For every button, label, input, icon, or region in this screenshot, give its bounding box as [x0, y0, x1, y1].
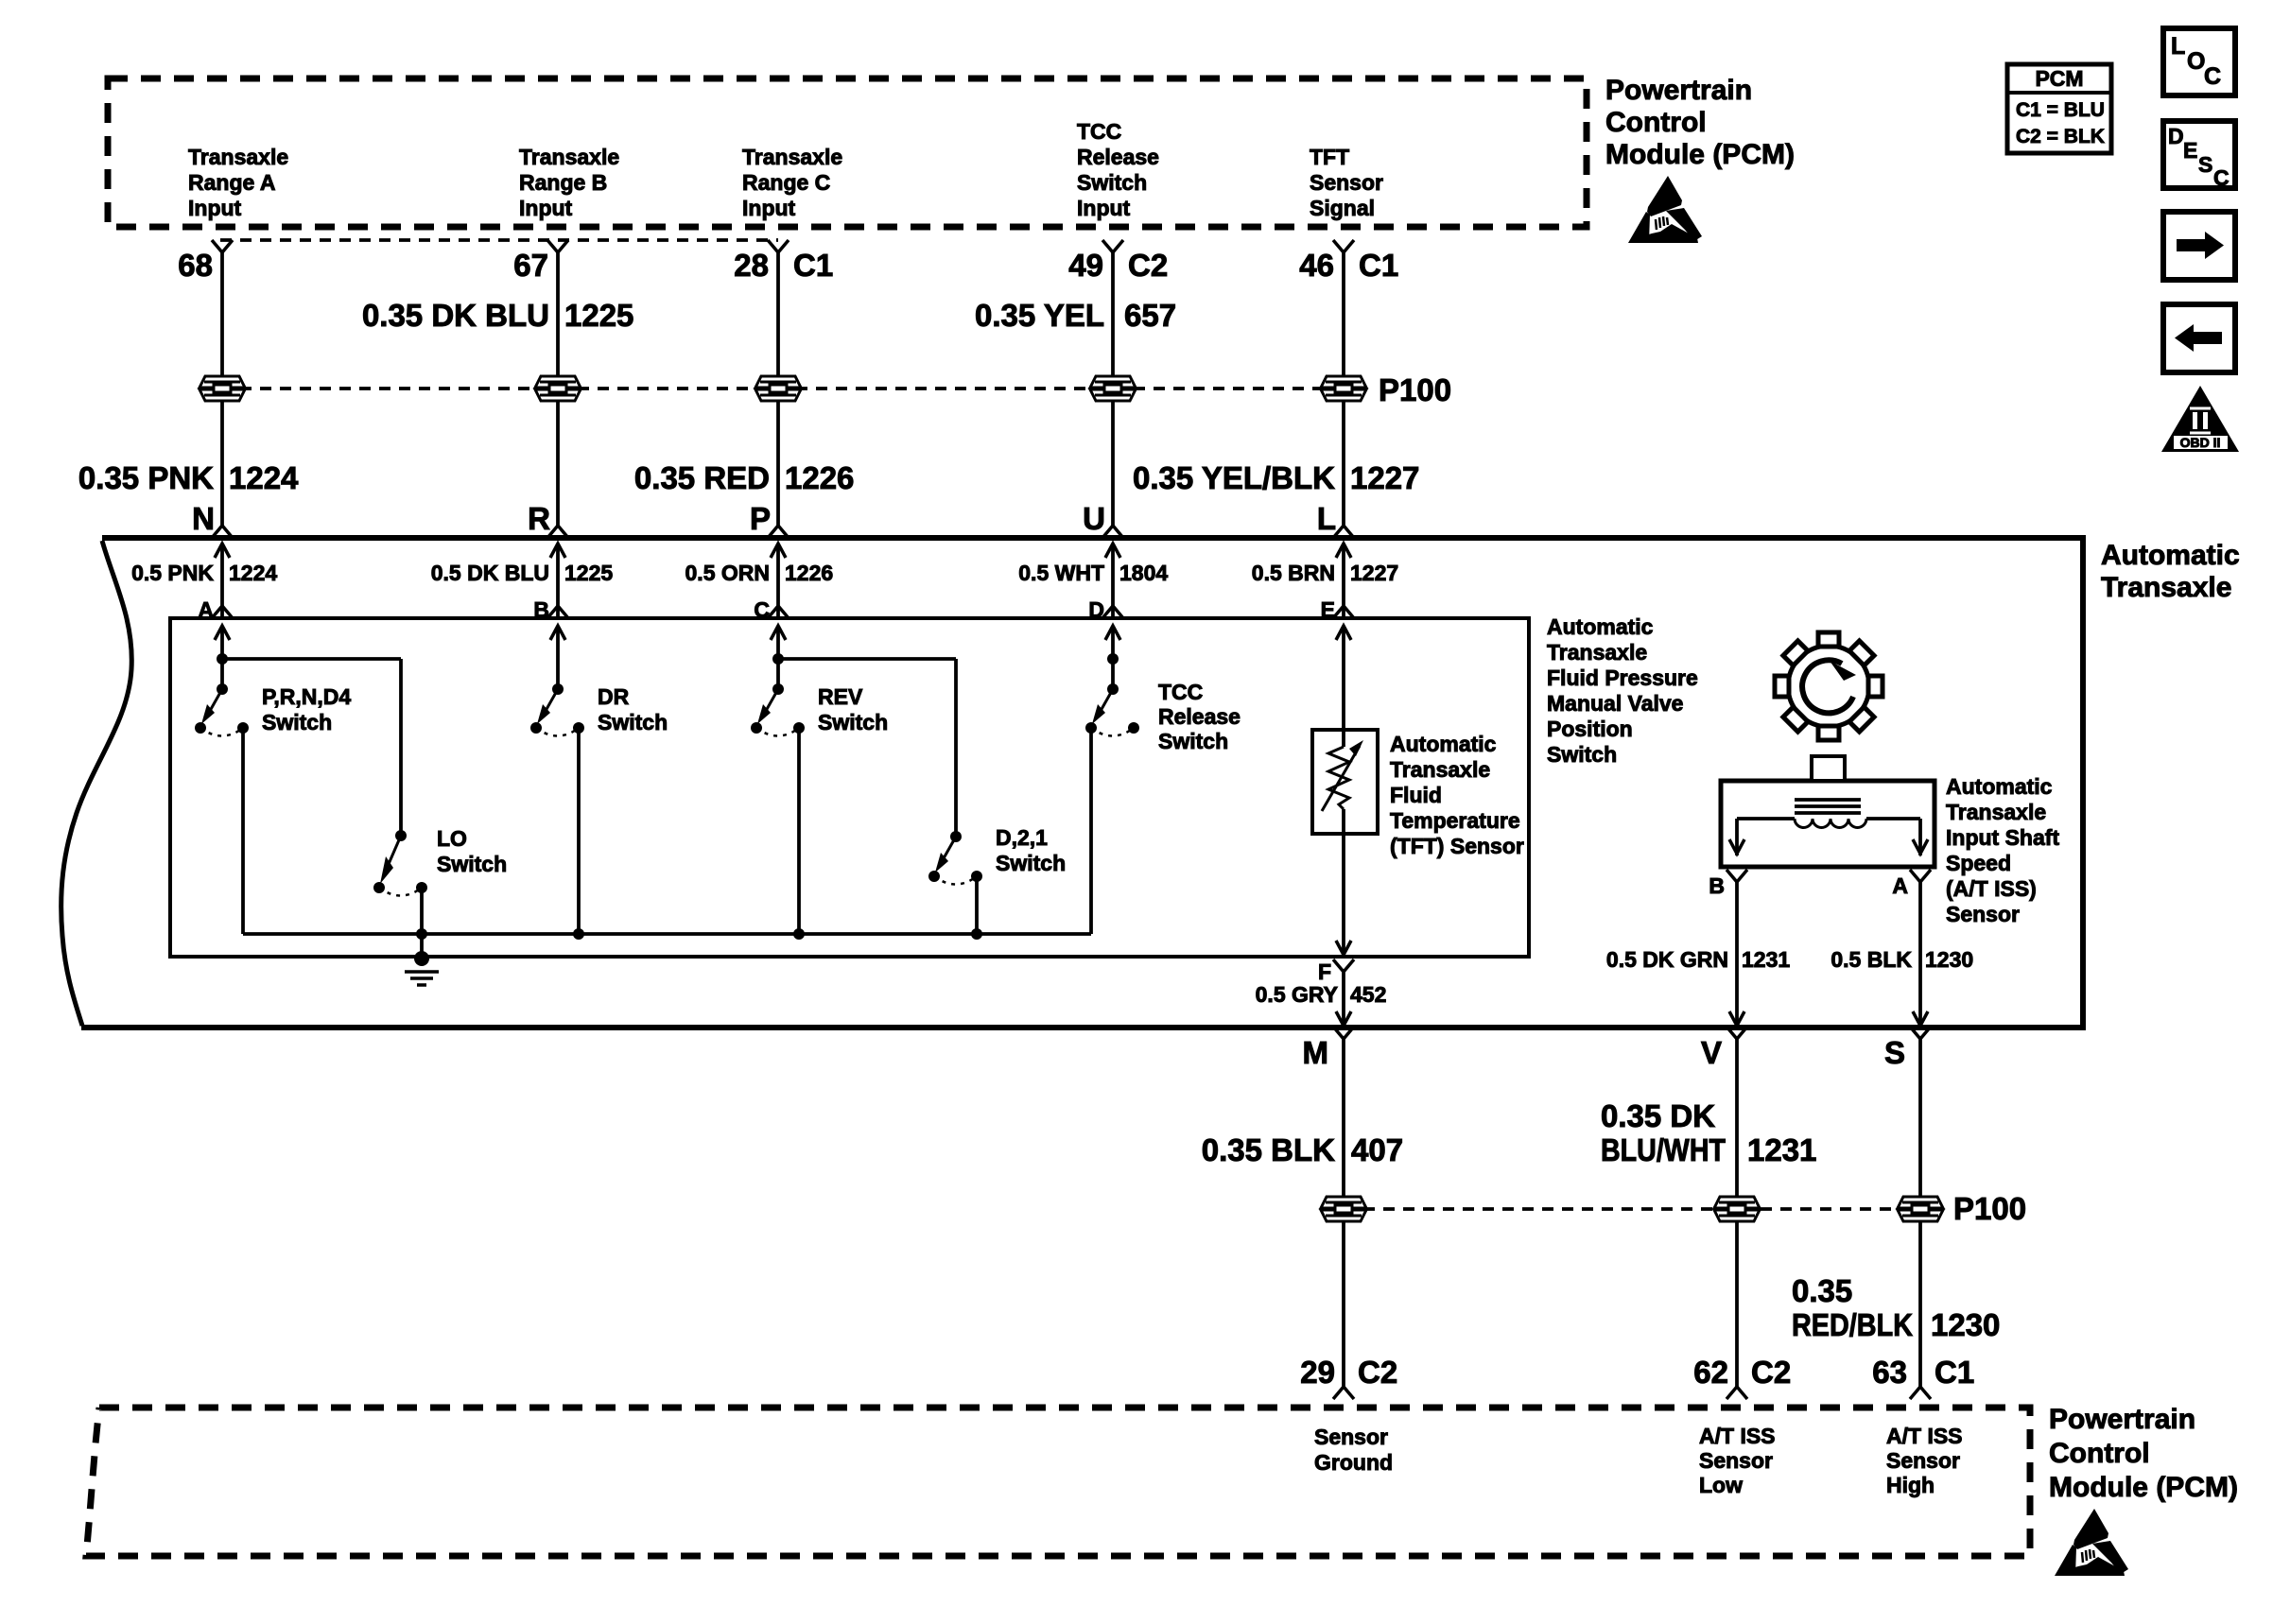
- svg-text:D,2,1: D,2,1: [996, 825, 1048, 850]
- svg-text:TCC: TCC: [1077, 119, 1121, 144]
- svg-text:Automatic: Automatic: [1946, 774, 2053, 799]
- svg-text:Range A: Range A: [188, 170, 275, 195]
- svg-text:1226: 1226: [785, 561, 833, 585]
- svg-text:407: 407: [1351, 1132, 1403, 1167]
- svg-text:Transaxle: Transaxle: [519, 145, 619, 169]
- svg-text:0.5 DK GRN: 0.5 DK GRN: [1606, 947, 1728, 972]
- svg-text:Low: Low: [1699, 1473, 1743, 1497]
- svg-text:Module (PCM): Module (PCM): [2049, 1472, 2238, 1503]
- svg-text:0.5 DK BLU: 0.5 DK BLU: [431, 561, 549, 585]
- svg-text:C2: C2: [1358, 1355, 1397, 1390]
- svg-text:0.35 YEL/BLK: 0.35 YEL/BLK: [1133, 460, 1335, 495]
- svg-text:Automatic: Automatic: [1547, 614, 1654, 639]
- svg-text:0.35 YEL: 0.35 YEL: [975, 298, 1104, 333]
- svg-text:0.5 BLK: 0.5 BLK: [1831, 947, 1912, 972]
- svg-text:Automatic: Automatic: [1390, 732, 1497, 756]
- svg-text:1230: 1230: [1925, 947, 1973, 972]
- svg-text:DR: DR: [598, 684, 630, 709]
- svg-text:1231: 1231: [1742, 947, 1790, 972]
- svg-text:Powertrain: Powertrain: [1605, 75, 1752, 106]
- svg-text:Automatic: Automatic: [2101, 540, 2240, 571]
- svg-text:Sensor: Sensor: [1946, 902, 2020, 926]
- svg-text:Switch: Switch: [437, 852, 507, 876]
- svg-text:0.35 PNK: 0.35 PNK: [78, 460, 214, 495]
- svg-text:A/T ISS: A/T ISS: [1699, 1424, 1776, 1448]
- svg-text:29: 29: [1300, 1355, 1335, 1390]
- svg-text:C1: C1: [793, 248, 833, 283]
- svg-text:0.35 BLK: 0.35 BLK: [1202, 1132, 1335, 1167]
- svg-text:1224: 1224: [229, 460, 299, 495]
- svg-text:0.35 DK BLU: 0.35 DK BLU: [362, 298, 549, 333]
- svg-text:Sensor: Sensor: [1699, 1448, 1773, 1473]
- svg-text:Input: Input: [742, 196, 796, 220]
- svg-text:D: D: [2168, 124, 2184, 148]
- svg-text:1804: 1804: [1119, 561, 1168, 585]
- svg-text:Input Shaft: Input Shaft: [1946, 825, 2059, 850]
- svg-text:1224: 1224: [229, 561, 277, 585]
- svg-text:0.5 PNK: 0.5 PNK: [131, 561, 214, 585]
- svg-text:Transaxle: Transaxle: [2101, 572, 2231, 603]
- svg-text:P100: P100: [1953, 1191, 2026, 1226]
- svg-text:Switch: Switch: [1158, 729, 1228, 753]
- svg-text:L: L: [2171, 33, 2185, 60]
- svg-text:Control: Control: [2049, 1438, 2150, 1469]
- svg-text:Manual Valve: Manual Valve: [1547, 691, 1683, 716]
- svg-text:Switch: Switch: [1547, 742, 1617, 767]
- svg-text:Signal: Signal: [1310, 196, 1375, 220]
- svg-text:1227: 1227: [1350, 460, 1419, 495]
- svg-text:Range C: Range C: [742, 170, 830, 195]
- svg-text:U: U: [1083, 501, 1105, 536]
- svg-text:1225: 1225: [564, 298, 633, 333]
- svg-text:RED/BLK: RED/BLK: [1792, 1307, 1913, 1342]
- svg-text:Speed: Speed: [1946, 851, 2011, 875]
- svg-text:TCC: TCC: [1158, 680, 1203, 704]
- svg-text:Transaxle: Transaxle: [1946, 800, 2046, 824]
- svg-text:452: 452: [1350, 982, 1386, 1007]
- svg-text:M: M: [1303, 1035, 1329, 1070]
- svg-text:F: F: [1318, 959, 1331, 984]
- svg-text:B: B: [1709, 873, 1725, 898]
- svg-text:(TFT) Sensor: (TFT) Sensor: [1390, 834, 1524, 858]
- svg-text:TFT: TFT: [1310, 145, 1349, 169]
- svg-text:Sensor: Sensor: [1886, 1448, 1960, 1473]
- svg-text:C1: C1: [1359, 248, 1398, 283]
- svg-text:0.5 GRY: 0.5 GRY: [1256, 982, 1338, 1007]
- svg-text:Transaxle: Transaxle: [188, 145, 288, 169]
- svg-text:67: 67: [513, 248, 548, 283]
- svg-text:Transaxle: Transaxle: [742, 145, 842, 169]
- svg-text:0.5 WHT: 0.5 WHT: [1018, 561, 1104, 585]
- svg-text:Fluid Pressure: Fluid Pressure: [1547, 665, 1698, 690]
- svg-text:PCM: PCM: [2035, 66, 2083, 91]
- svg-text:P100: P100: [1379, 372, 1451, 407]
- svg-text:P,R,N,D4: P,R,N,D4: [262, 684, 351, 709]
- svg-text:E: E: [2183, 138, 2197, 163]
- svg-text:Switch: Switch: [262, 710, 332, 734]
- svg-text:Input: Input: [519, 196, 573, 220]
- svg-text:Range B: Range B: [519, 170, 607, 195]
- svg-text:46: 46: [1299, 248, 1334, 283]
- svg-text:Control: Control: [1605, 107, 1707, 138]
- svg-text:Position: Position: [1547, 717, 1633, 741]
- svg-text:Transaxle: Transaxle: [1547, 640, 1647, 665]
- svg-text:A/T ISS: A/T ISS: [1886, 1424, 1963, 1448]
- svg-text:1231: 1231: [1747, 1132, 1816, 1167]
- svg-text:O: O: [2187, 48, 2205, 75]
- svg-text:REV: REV: [818, 684, 863, 709]
- svg-text:High: High: [1886, 1473, 1935, 1497]
- svg-text:0.35: 0.35: [1792, 1273, 1852, 1308]
- svg-text:0.5 BRN: 0.5 BRN: [1252, 561, 1335, 585]
- svg-text:C: C: [2213, 165, 2230, 190]
- svg-text:Powertrain: Powertrain: [2049, 1404, 2195, 1435]
- svg-text:C: C: [2204, 63, 2221, 90]
- svg-text:C2 = BLK: C2 = BLK: [2016, 126, 2105, 147]
- svg-text:(A/T ISS): (A/T ISS): [1946, 876, 2037, 901]
- svg-text:63: 63: [1872, 1355, 1907, 1390]
- svg-text:Input: Input: [188, 196, 242, 220]
- svg-text:1226: 1226: [785, 460, 854, 495]
- svg-text:BLU/WHT: BLU/WHT: [1601, 1132, 1726, 1167]
- svg-text:C1 = BLU: C1 = BLU: [2016, 99, 2105, 121]
- svg-text:Temperature: Temperature: [1390, 808, 1520, 833]
- svg-text:C2: C2: [1751, 1355, 1791, 1390]
- svg-text:1225: 1225: [564, 561, 613, 585]
- svg-text:Switch: Switch: [598, 710, 668, 734]
- svg-text:N: N: [192, 501, 215, 536]
- svg-text:Input: Input: [1077, 196, 1131, 220]
- svg-text:28: 28: [734, 248, 769, 283]
- svg-text:0.35 DK: 0.35 DK: [1601, 1098, 1715, 1133]
- svg-text:Transaxle: Transaxle: [1390, 757, 1490, 782]
- svg-text:Module (PCM): Module (PCM): [1605, 139, 1795, 170]
- svg-text:Switch: Switch: [818, 710, 888, 734]
- svg-text:1230: 1230: [1931, 1307, 2000, 1342]
- svg-text:P: P: [750, 501, 771, 536]
- svg-text:1227: 1227: [1350, 561, 1398, 585]
- svg-text:Switch: Switch: [996, 851, 1066, 875]
- svg-text:OBD II: OBD II: [2180, 435, 2221, 450]
- svg-text:S: S: [1884, 1035, 1905, 1070]
- svg-text:A: A: [1892, 873, 1908, 898]
- svg-text:C1: C1: [1935, 1355, 1974, 1390]
- svg-text:657: 657: [1124, 298, 1176, 333]
- svg-text:49: 49: [1068, 248, 1103, 283]
- svg-text:Fluid: Fluid: [1390, 783, 1442, 807]
- svg-text:Release: Release: [1158, 704, 1241, 729]
- svg-text:LO: LO: [437, 826, 467, 851]
- svg-text:0.35 RED: 0.35 RED: [634, 460, 770, 495]
- svg-text:V: V: [1701, 1035, 1722, 1070]
- svg-text:S: S: [2198, 152, 2212, 177]
- svg-text:Release: Release: [1077, 145, 1159, 169]
- svg-text:0.5 ORN: 0.5 ORN: [685, 561, 770, 585]
- svg-text:R: R: [528, 501, 550, 536]
- svg-text:Ground: Ground: [1314, 1450, 1393, 1475]
- svg-text:Sensor: Sensor: [1314, 1425, 1388, 1449]
- svg-text:68: 68: [178, 248, 213, 283]
- svg-text:Switch: Switch: [1077, 170, 1147, 195]
- svg-text:62: 62: [1693, 1355, 1728, 1390]
- svg-text:Sensor: Sensor: [1310, 170, 1383, 195]
- svg-text:C2: C2: [1128, 248, 1168, 283]
- svg-text:L: L: [1317, 501, 1336, 536]
